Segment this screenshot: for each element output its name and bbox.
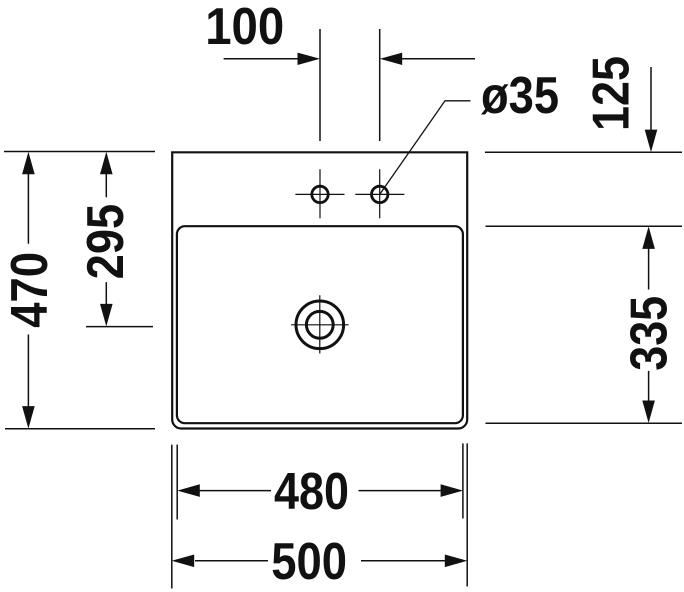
dim 335 line segments [648, 248, 650, 401]
arrowhead 295 top [100, 152, 113, 175]
right extension line bottom [486, 422, 683, 424]
arrowhead 500 right [445, 555, 468, 568]
svg-text:ø35: ø35 [481, 67, 559, 124]
basin outer outline [172, 152, 467, 428]
dim 125 line [650, 67, 652, 132]
arrowhead 470 bottom [22, 406, 35, 429]
basin inner bowl rim [177, 226, 463, 423]
faucet hole left crosshair [295, 169, 344, 218]
arrowhead 470 top [22, 152, 35, 175]
bottom extension line far-right (500) [466, 443, 468, 586]
faucet hole right circle [372, 186, 388, 202]
dim 100 line left segment [224, 58, 299, 60]
arrowhead 335 up [642, 226, 655, 249]
arrowhead 295 bottom [100, 304, 113, 327]
svg-text:295: 295 [77, 204, 134, 279]
faucet hole right crosshair [355, 169, 404, 218]
dim 100 extension line left [319, 29, 321, 141]
dim 470 line segments [27, 160, 29, 420]
svg-text:125: 125 [583, 56, 641, 131]
dim 480 line segments [200, 490, 442, 492]
arrowhead 480 left [177, 484, 200, 497]
arrowhead 335 down [642, 401, 655, 424]
drain outer circle [296, 301, 344, 349]
drain crosshair [291, 295, 349, 353]
bottom extension line right (480) [462, 443, 464, 518]
dim 500 line segments [195, 560, 446, 562]
arrowhead 100 right-pointing [298, 53, 321, 65]
dim 100 extension line right [379, 29, 381, 141]
arrowhead 125 down [645, 130, 658, 153]
drain inner circle [306, 311, 333, 338]
svg-text:480: 480 [274, 463, 349, 521]
leader line to ø35 [380, 101, 471, 195]
left top extension line [4, 151, 155, 153]
arrowhead 100 left-pointing [380, 53, 403, 65]
svg-text:100: 100 [205, 0, 284, 56]
dim 100 line right segment [402, 58, 475, 60]
arrowhead 500 left [172, 555, 195, 568]
right extension line top [485, 151, 682, 153]
bottom extension line far-left (500) [171, 445, 173, 589]
svg-text:470: 470 [1, 252, 58, 328]
bottom extension line left (480) [176, 445, 178, 520]
arrowhead 480 right [441, 484, 464, 497]
svg-text:335: 335 [621, 296, 679, 371]
svg-text:500: 500 [271, 533, 347, 590]
right extension line middle [486, 225, 683, 227]
faucet hole left circle [312, 186, 328, 202]
dim 295 bottom tick line [86, 326, 153, 328]
dim 295 line segments [105, 160, 107, 318]
left bottom extension line [5, 428, 155, 430]
